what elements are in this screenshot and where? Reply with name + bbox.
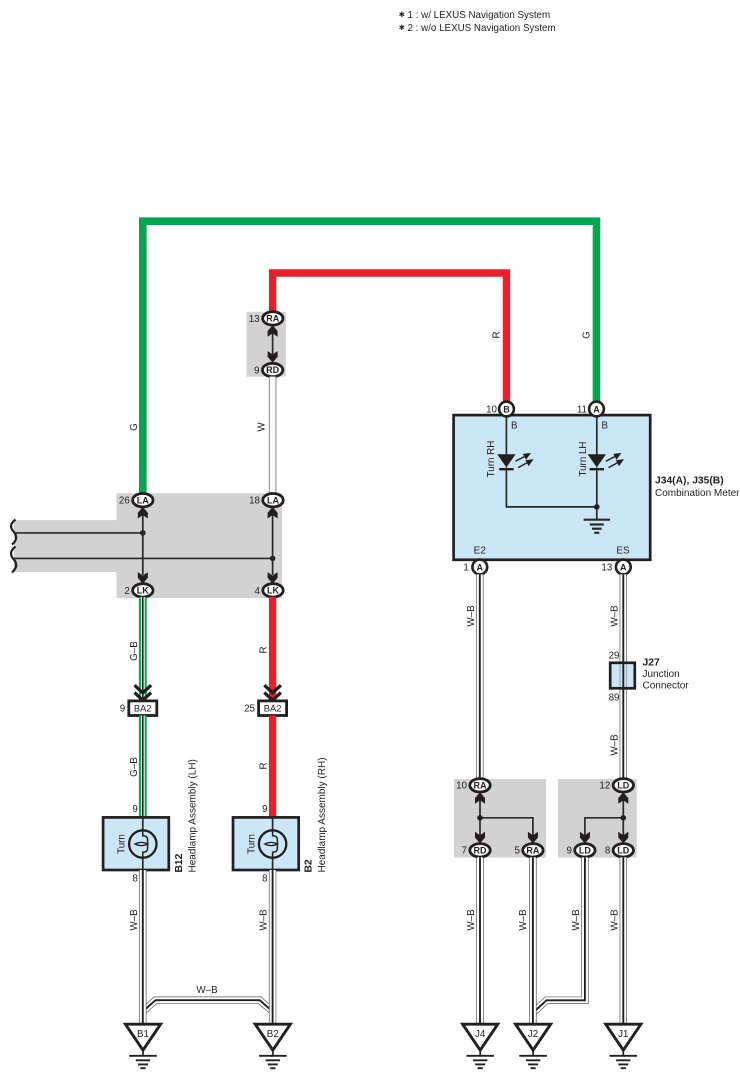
svg-text:Turn: Turn	[247, 834, 258, 854]
wire W-B meter pin13 down to J27 and LD12	[620, 574, 627, 780]
svg-text:Combination Meter: Combination Meter	[655, 488, 740, 499]
wire internal B (LH side)	[596, 415, 598, 455]
wire W-B LD9 jog to ground J2	[533, 857, 585, 1012]
wire W-B RA5 to ground J2	[529, 857, 536, 1025]
wire R thick red: connector RA13 up over to combination meter pin 10	[273, 273, 507, 402]
svg-text:J27: J27	[643, 658, 660, 669]
svg-text:1: 1	[463, 562, 468, 573]
headlamp assembly RH box B2	[233, 817, 299, 870]
wire W-B RD7 to ground J4	[476, 857, 483, 1025]
svg-text:Turn: Turn	[117, 834, 128, 854]
svg-text:2: 2	[124, 586, 129, 597]
wire G-B from BA2 to headlamp LH pin 9	[139, 716, 147, 818]
svg-text:W–B: W–B	[196, 985, 218, 996]
node junction dot	[621, 815, 627, 821]
ground B1 stub and bars	[129, 1050, 157, 1068]
svg-text:W–B: W–B	[466, 605, 477, 627]
wire internal through bulb LH	[142, 817, 144, 870]
arrow down into LD9	[580, 832, 590, 844]
svg-text:BA2: BA2	[264, 703, 282, 714]
arrow down into RD9	[268, 351, 278, 363]
ground J1 stub and bars	[610, 1050, 638, 1068]
wire internal below LED RH to ground	[506, 467, 596, 507]
junction connector J27 box	[610, 663, 635, 689]
LED Turn RH	[497, 454, 515, 467]
node junction dot internal	[594, 504, 600, 510]
svg-text:LD: LD	[617, 780, 629, 790]
ground J4 stub and bars	[466, 1050, 494, 1068]
svg-text:A: A	[620, 562, 627, 572]
ground J1 triangle	[606, 1024, 641, 1050]
svg-text:G: G	[582, 331, 593, 339]
wire W-B meter pin1 down to RA10	[476, 574, 483, 780]
svg-text:Headlamp Assembly (LH): Headlamp Assembly (LH)	[188, 759, 199, 872]
svg-text:RD: RD	[474, 845, 487, 855]
terminal oval LD pin 12	[613, 779, 633, 792]
wire internal vertical LA26-LK2	[142, 509, 144, 575]
connector block LD12/LD9/LD8 gray background	[558, 779, 637, 858]
arrow up into RA13	[268, 325, 278, 337]
terminal oval RA pin 10	[470, 779, 490, 792]
terminal oval LD pin 9	[575, 844, 595, 857]
svg-text:B2: B2	[304, 859, 315, 872]
terminal oval RA pin 5	[523, 844, 543, 857]
svg-text:RD: RD	[266, 365, 279, 375]
wire internal LD12 down	[622, 794, 624, 836]
bulb Turn LH	[129, 830, 156, 857]
svg-text:Junction: Junction	[643, 669, 680, 680]
arrow down into LD8	[618, 832, 628, 844]
svg-text:LA: LA	[267, 495, 279, 505]
svg-text:J1: J1	[618, 1029, 628, 1040]
svg-text:LK: LK	[137, 586, 149, 596]
svg-text:W–B: W–B	[518, 909, 529, 931]
svg-text:12: 12	[599, 781, 610, 792]
wire W-B through J27	[620, 661, 627, 690]
svg-text:9: 9	[262, 804, 267, 815]
svg-text:89: 89	[609, 693, 620, 704]
wire between RA13 and RD9	[272, 330, 274, 357]
svg-text:W–B: W–B	[466, 909, 477, 931]
svg-text:LD: LD	[579, 845, 591, 855]
svg-text:1 : w/ LEXUS Navigation System: 1 : w/ LEXUS Navigation System	[408, 10, 551, 21]
combination meter box J34/J35	[454, 415, 651, 560]
svg-text:BA2: BA2	[134, 703, 152, 714]
svg-text:E2: E2	[474, 546, 487, 557]
svg-text:Connector: Connector	[643, 681, 690, 692]
terminal oval LA pin 26	[133, 494, 153, 507]
svg-text:W–B: W–B	[571, 909, 582, 931]
terminal oval LK pin 2	[133, 584, 153, 597]
arrow up into LA26	[138, 507, 148, 519]
wire R from LK4 to BA2 connector (right)	[269, 597, 276, 700]
wire internal through bulb RH	[272, 817, 274, 870]
wire internal vertical LA18-LK4	[272, 509, 274, 575]
svg-text:8: 8	[262, 873, 268, 884]
ground J2 stub and bars	[519, 1050, 547, 1068]
ground J4 triangle	[463, 1024, 498, 1050]
svg-text:G: G	[129, 423, 140, 431]
svg-text:Headlamp Assembly (RH): Headlamp Assembly (RH)	[317, 757, 328, 872]
svg-text:G–B: G–B	[129, 757, 140, 777]
wire W white from RD9 down to LA18	[269, 377, 276, 494]
svg-text:J34(A), J35(B): J34(A), J35(B)	[655, 476, 724, 487]
headlamp assembly LH box B12	[103, 817, 169, 870]
svg-text:8: 8	[132, 873, 138, 884]
svg-text:11: 11	[577, 404, 587, 415]
wire W-B headlamp RH pin 8 to ground B2	[269, 870, 276, 1025]
svg-text:R: R	[259, 762, 270, 769]
splice arrows into BA2 (left)	[135, 685, 152, 700]
svg-text:Turn RH: Turn RH	[486, 441, 497, 478]
svg-text:B: B	[602, 421, 609, 432]
terminal circle B pin 10	[499, 402, 514, 417]
svg-text:J2: J2	[528, 1029, 538, 1040]
svg-text:4: 4	[255, 586, 261, 597]
terminal oval RA pin 13	[263, 312, 283, 325]
arrow down into RD7	[475, 832, 485, 844]
svg-text:13: 13	[249, 314, 260, 325]
svg-text:B12: B12	[174, 853, 185, 872]
svg-text:W–B: W–B	[609, 734, 620, 756]
svg-text:LA: LA	[137, 495, 149, 505]
connector block RA13/RD9 gray background	[246, 312, 285, 377]
wire internal branch to LD9	[585, 818, 623, 836]
break squiggle upper	[11, 520, 16, 545]
svg-text:RA: RA	[474, 780, 487, 790]
arrow up into RA10	[475, 792, 485, 804]
arrow down into LK4	[268, 572, 278, 584]
connector block RA10/RD7/RA5 gray background	[454, 779, 546, 858]
svg-text:10: 10	[486, 404, 497, 415]
ground B1 triangle	[125, 1024, 160, 1050]
svg-text:9: 9	[132, 804, 137, 815]
svg-text:RA: RA	[266, 314, 279, 324]
svg-text:10: 10	[456, 781, 467, 792]
svg-text:RA: RA	[526, 845, 539, 855]
wire G-B from LK2 to BA2 connector	[139, 597, 147, 700]
wire internal horizontal 1	[14, 532, 143, 534]
svg-text:A: A	[593, 404, 600, 414]
connector BA2 pin 9	[129, 701, 157, 716]
arrow up into LA18	[268, 507, 278, 519]
terminal circle A pin 1 (E2)	[472, 560, 487, 575]
svg-text:2 : w/o LEXUS Navigation Syste: 2 : w/o LEXUS Navigation System	[408, 23, 556, 34]
svg-text:G–B: G–B	[129, 641, 140, 661]
splice arrows into BA2 (right)	[264, 685, 281, 700]
svg-text:ES: ES	[616, 546, 630, 557]
svg-text:R: R	[259, 646, 270, 653]
svg-text:9: 9	[566, 846, 571, 857]
connector BA2 pin 25	[259, 701, 287, 716]
node junction dot at LA18 column	[270, 556, 276, 562]
svg-text:A: A	[477, 562, 484, 572]
wire internal LED LH down	[596, 467, 598, 519]
ground internal chassis bars	[584, 520, 610, 533]
ground B2 stub and bars	[259, 1050, 287, 1068]
svg-text:29: 29	[609, 651, 620, 662]
node junction dot at LA26 column	[140, 530, 146, 536]
terminal oval LA pin 18	[263, 494, 283, 507]
svg-text:W: W	[257, 422, 268, 432]
svg-text:LK: LK	[267, 586, 279, 596]
junction block gray body (left arm with break)	[14, 493, 282, 598]
wire internal branch to RA5	[480, 818, 533, 836]
svg-text:W–B: W–B	[609, 909, 620, 931]
svg-text:7: 7	[462, 846, 467, 857]
svg-text:W–B: W–B	[609, 605, 620, 627]
wire internal B (RH side)	[505, 415, 507, 455]
break squiggle lower	[11, 547, 16, 573]
svg-text:J4: J4	[475, 1029, 486, 1040]
note legend asterisk 2	[400, 25, 405, 30]
terminal oval RD pin 7	[470, 844, 490, 857]
terminal circle A pin 11	[589, 402, 604, 417]
svg-text:R: R	[492, 331, 503, 338]
arrow up into LD12	[618, 792, 628, 804]
svg-text:Turn LH: Turn LH	[578, 441, 589, 476]
ground J2 triangle	[516, 1024, 551, 1050]
svg-text:B: B	[503, 404, 510, 414]
svg-text:26: 26	[119, 496, 130, 507]
svg-text:W–B: W–B	[258, 909, 269, 931]
wire W-B LD8 to ground J1	[620, 857, 627, 1025]
arrow down into LK2	[138, 572, 148, 584]
terminal oval RD pin 9	[262, 363, 282, 376]
svg-text:B1: B1	[137, 1029, 149, 1040]
svg-text:18: 18	[249, 496, 260, 507]
arrow down into RA5	[528, 832, 538, 844]
terminal oval LD pin 8	[613, 844, 633, 857]
wire R from BA2 to headlamp RH pin 9	[269, 716, 276, 818]
bulb Turn RH	[259, 830, 286, 857]
svg-text:5: 5	[514, 846, 520, 857]
svg-text:9: 9	[120, 704, 125, 715]
svg-text:LD: LD	[617, 845, 629, 855]
svg-text:W–B: W–B	[129, 909, 140, 931]
svg-text:B: B	[511, 421, 518, 432]
ground B2 triangle	[255, 1024, 290, 1050]
wire G thick green: node LA26 up over to combination meter pin 11	[143, 221, 597, 493]
wire W-B headlamp LH pin 8 to ground B1	[139, 870, 146, 1025]
svg-text:25: 25	[244, 704, 255, 715]
svg-text:9: 9	[254, 365, 259, 376]
svg-text:B2: B2	[267, 1029, 279, 1040]
note legend asterisk 1	[400, 12, 405, 17]
node junction dot	[477, 815, 483, 821]
wire W-B link between B1 and B2 grounds	[143, 1000, 273, 1011]
wire internal RA10 down	[479, 794, 481, 836]
terminal oval LK pin 4	[263, 584, 283, 597]
svg-text:8: 8	[605, 846, 611, 857]
wire internal horizontal 2	[14, 557, 273, 559]
terminal circle A pin 13 (ES)	[616, 560, 631, 575]
svg-text:13: 13	[601, 562, 612, 573]
LED Turn LH	[588, 454, 606, 467]
